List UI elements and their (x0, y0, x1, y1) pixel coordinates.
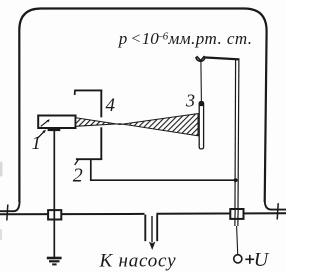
svg-text:2: 2 (73, 165, 83, 187)
svg-text:К насосу: К насосу (99, 251, 177, 272)
svg-text:мм.рт. ст.: мм.рт. ст. (168, 29, 253, 48)
svg-text:4: 4 (106, 95, 116, 116)
svg-text:U: U (254, 249, 270, 271)
svg-text:3: 3 (185, 90, 195, 110)
svg-text:<: < (130, 30, 141, 47)
svg-text:p: p (118, 29, 128, 48)
svg-text:–6: –6 (156, 30, 169, 42)
svg-text:1: 1 (32, 133, 42, 154)
